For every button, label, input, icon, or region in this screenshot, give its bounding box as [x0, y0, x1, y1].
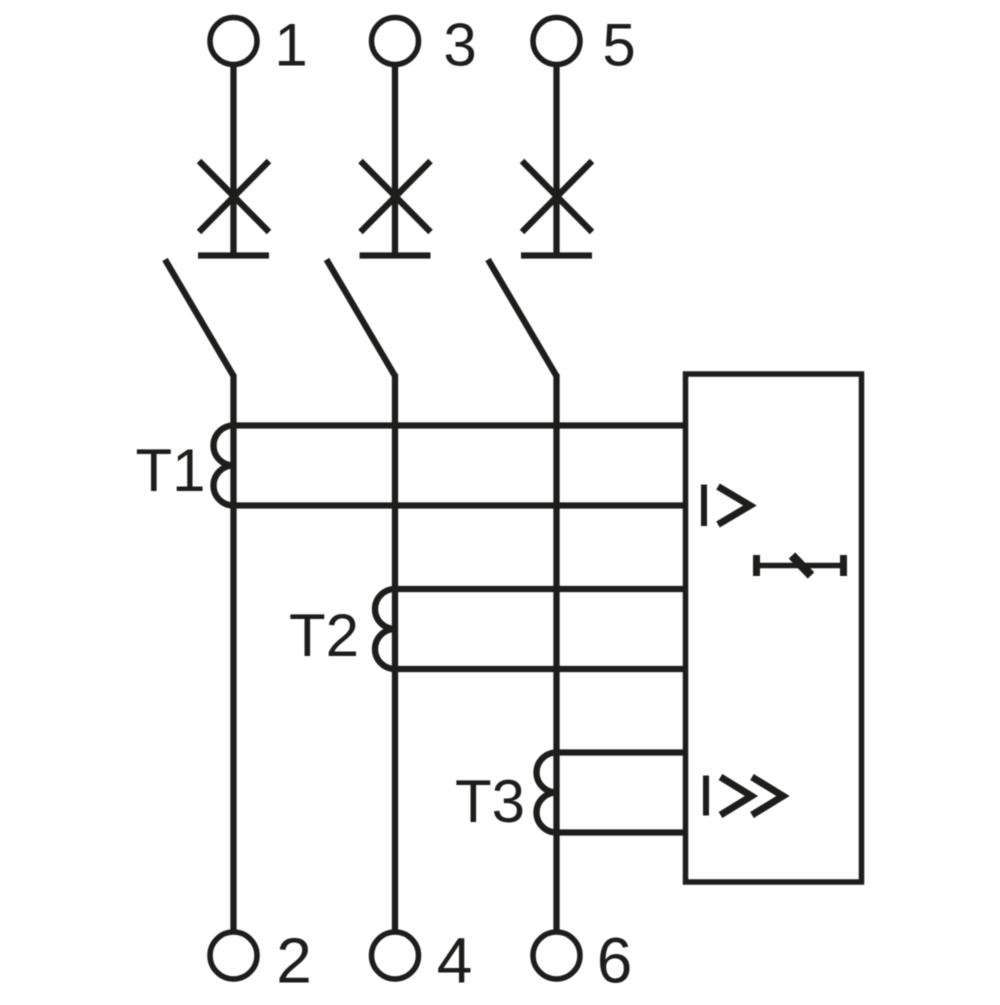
wire pole2 lower	[392, 374, 398, 932]
breaker contact X pole 3	[522, 161, 592, 232]
wire T2 top to trip unit	[395, 586, 688, 592]
terminal circle 5	[533, 18, 580, 65]
fixed contact bar pole 1	[198, 252, 269, 258]
fixed contact bar pole 3	[521, 252, 592, 258]
overload release symbol I>	[704, 485, 750, 527]
current transformer T2 coil	[375, 589, 395, 669]
wire pole3 upper	[553, 67, 559, 255]
breaker contact X pole 1	[199, 161, 269, 232]
svg-text:5: 5	[602, 12, 635, 79]
wire T3 top to trip unit	[557, 749, 689, 755]
switch blade pole 2	[327, 260, 396, 377]
terminal circle 4	[372, 932, 419, 979]
wire T1 bottom to trip unit	[234, 502, 689, 508]
svg-text:6: 6	[597, 925, 633, 997]
svg-text:T1: T1	[136, 437, 206, 504]
switch blade pole 3	[488, 260, 557, 377]
trip unit box	[686, 374, 862, 882]
short-circuit release symbol I>>	[706, 776, 783, 816]
terminal circle 2	[210, 932, 257, 979]
mechanical latch symbol	[754, 555, 847, 576]
terminal circle 6	[533, 932, 580, 979]
current transformer T3 coil	[537, 753, 557, 833]
wire pole2 upper	[392, 67, 398, 255]
fixed contact bar pole 2	[360, 252, 431, 258]
terminal circle 3	[372, 18, 419, 65]
svg-text:4: 4	[437, 925, 473, 997]
wire pole1 lower	[230, 374, 236, 932]
wire T1 top to trip unit	[234, 422, 689, 428]
svg-text:1: 1	[274, 12, 307, 79]
svg-text:T3: T3	[455, 768, 525, 835]
switch blade pole 1	[165, 260, 234, 377]
wire T3 bottom to trip unit	[557, 829, 689, 835]
wire T2 bottom to trip unit	[395, 666, 688, 672]
current transformer T1 coil	[214, 426, 234, 506]
wire pole3 lower	[553, 374, 559, 932]
terminal circle 1	[210, 18, 257, 65]
svg-text:2: 2	[276, 925, 312, 997]
svg-text:3: 3	[443, 12, 476, 79]
svg-text:T2: T2	[289, 602, 359, 669]
breaker contact X pole 2	[361, 161, 431, 232]
wire pole1 upper	[230, 67, 236, 255]
